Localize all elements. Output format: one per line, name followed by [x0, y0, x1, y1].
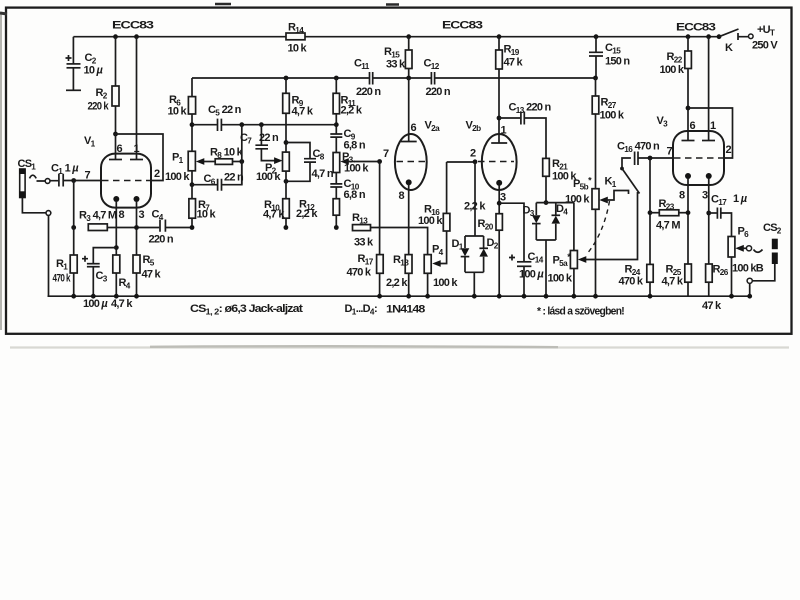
jack CS2 hook [754, 250, 763, 253]
wiper arrow P4 fed by R16 [439, 231, 447, 264]
resistor R14 [286, 33, 305, 40]
capacitor C16 [622, 158, 631, 169]
ground bar under C2 [66, 89, 81, 91]
svg-text:2: 2 [726, 144, 732, 156]
svg-text:1N4148: 1N4148 [386, 304, 425, 316]
anode bar V2b [491, 142, 507, 144]
svg-text:10 µ: 10 µ [84, 65, 104, 77]
svg-text:220 n: 220 n [356, 86, 381, 98]
svg-text:150 n: 150 n [605, 56, 630, 68]
wire V2b grid down to D1/D2 [474, 162, 476, 236]
wire elbow anode to pin2 [688, 108, 733, 158]
cathode dot pin8 [113, 196, 119, 202]
svg-text:C16 470 n: C16 470 n [617, 141, 660, 155]
resistor R18 (V2a cathode) [408, 184, 410, 255]
resistor R20 [496, 214, 502, 231]
wire pin3 cathode down [136, 201, 138, 255]
wiper arrow P6 [735, 245, 744, 252]
wire sleeve to ground rail [22, 198, 48, 297]
grid dashed V3 [674, 157, 723, 159]
wire V3 cathode pin3 [708, 178, 710, 264]
svg-text:2: 2 [154, 168, 160, 180]
resistor R27 [595, 78, 597, 96]
svg-text:2,2 k: 2,2 k [386, 277, 408, 289]
resistor R5 [133, 255, 140, 273]
wiper arrow P2 [274, 157, 283, 164]
node V2b cathode [498, 185, 500, 214]
node V2b grid [473, 159, 478, 164]
capacitor C11 [370, 72, 373, 85]
diode D4 [552, 216, 561, 224]
diode D2 [479, 249, 488, 257]
cathode dots V3 [685, 173, 691, 179]
capacitor C6 [191, 171, 193, 185]
svg-text:220 k: 220 k [88, 101, 110, 113]
svg-text:2: 2 [470, 148, 476, 160]
resistor R11 [334, 76, 339, 81]
capacitor C1 [59, 174, 63, 187]
pot P5a [570, 251, 577, 269]
svg-text:100 k: 100 k [165, 171, 190, 183]
svg-text:ECC83: ECC83 [676, 22, 716, 34]
pot P2 [283, 152, 290, 171]
capacitor C3 [87, 263, 100, 265]
tube V2a envelope [395, 134, 427, 190]
capacitor C17 [709, 212, 717, 214]
wire R13 to P4 [371, 228, 428, 255]
svg-text:100 µ: 100 µ [519, 269, 544, 281]
pot P6 [728, 237, 735, 258]
signal line y78 [192, 77, 596, 79]
svg-text:33 k: 33 k [386, 59, 406, 71]
wire pin1 from rail [134, 34, 139, 39]
svg-text:4,7 k: 4,7 k [292, 106, 314, 118]
svg-text:6: 6 [117, 143, 123, 155]
anode bar V2a [401, 141, 417, 143]
capacitor C14 [499, 203, 524, 261]
node C3 tap [114, 245, 119, 250]
resistor R25 [685, 264, 692, 282]
svg-text:470 k: 470 k [619, 276, 644, 288]
svg-text:8: 8 [399, 190, 405, 202]
cathode dot pin3 [134, 196, 140, 202]
svg-text:7: 7 [383, 148, 389, 160]
tube V3 envelope [673, 131, 724, 185]
resistor R15 [406, 34, 411, 39]
svg-text:250 V: 250 V [752, 40, 778, 52]
resistor R3 [88, 224, 107, 231]
scan artifact: bottom dark bar [10, 346, 789, 348]
capacitor C5 [218, 119, 222, 131]
anode bars V3 [682, 140, 695, 142]
resistor R13 [353, 225, 371, 231]
wire pin6 [408, 78, 410, 142]
anode bar pin1 [130, 159, 143, 161]
svg-text:6: 6 [411, 122, 417, 134]
node V2a anode [406, 76, 411, 81]
svg-text:22 n: 22 n [224, 172, 244, 184]
svg-text:100 µ: 100 µ [83, 298, 108, 310]
svg-text:1: 1 [710, 120, 716, 132]
svg-text:2,2 k: 2,2 k [341, 105, 363, 117]
node grid V1 [71, 178, 76, 183]
svg-text:3: 3 [139, 209, 145, 221]
wire V3 cathode pin8 [687, 178, 689, 264]
node V3 grid [648, 156, 653, 161]
wire grid down to R3 line [73, 181, 75, 228]
diode D1 [461, 248, 470, 256]
resistor R22 [686, 34, 691, 39]
capacitor C7 [260, 125, 262, 145]
svg-text:1: 1 [134, 143, 140, 155]
svg-text:470 k: 470 k [347, 267, 372, 279]
wiper arrow P5a [578, 256, 587, 263]
diode pair D1 D2 [465, 236, 484, 272]
node C12 output [593, 76, 598, 81]
node P2 top [284, 140, 289, 145]
cathode dot V2a [406, 179, 412, 185]
node anode V1a [113, 132, 118, 137]
jack CS2 sleeve wire [752, 264, 775, 281]
capacitor C9 [330, 134, 342, 137]
resistor R10 [283, 199, 290, 219]
capacitor C4 [160, 220, 165, 232]
resistor R19 [497, 34, 502, 39]
svg-text:ECC83: ECC83 [442, 20, 483, 32]
svg-text:4,7 n: 4,7 n [312, 168, 334, 180]
pot P3 [333, 153, 340, 173]
wiper arrow P1 [202, 161, 215, 163]
scan artifact: top edge dashes [215, 3, 399, 6]
capacitor C10 [335, 173, 337, 184]
wire R3 to C4 [107, 227, 159, 229]
svg-text:7: 7 [667, 146, 673, 158]
wire pin8 cathode down [115, 201, 117, 255]
svg-text:100 k: 100 k [565, 194, 590, 206]
svg-text:22 n: 22 n [259, 132, 279, 144]
svg-text:6,8 n: 6,8 n [344, 189, 366, 201]
grid dashed V2a [397, 161, 426, 163]
node below R6 [190, 122, 195, 127]
jack CS1 [20, 169, 25, 198]
svg-text:2,2 k: 2,2 k [464, 201, 486, 213]
diode D3 [532, 215, 541, 223]
svg-text:C1 1 µ: C1 1 µ [51, 163, 79, 177]
wiper arrow P3 (from V2a grid wire) [354, 161, 380, 163]
resistor R21 [543, 158, 550, 176]
resistor R16 [443, 213, 450, 231]
capacitor C15 [594, 34, 599, 39]
svg-text:4,7 k: 4,7 k [263, 209, 285, 221]
cathode dot V2b [496, 180, 502, 186]
svg-text:3: 3 [702, 190, 708, 202]
node D3/D4 top [544, 200, 549, 205]
svg-text:100 k: 100 k [548, 273, 573, 285]
svg-text:4,7 M: 4,7 M [656, 220, 680, 232]
diode pair D3 D4 [536, 203, 574, 240]
scan artifact: left gutter streak [0, 12, 2, 330]
ground rail dots (middle) [377, 294, 382, 299]
jack CS2 [772, 239, 778, 250]
wire pin6 [115, 134, 117, 160]
svg-text:C5 22 n: C5 22 n [208, 104, 242, 118]
svg-text:100 k: 100 k [418, 215, 443, 227]
svg-text:10 k: 10 k [168, 106, 188, 118]
svg-text:4,7 k: 4,7 k [662, 276, 684, 288]
svg-text:470 k: 470 k [53, 273, 72, 285]
svg-text:4,7 k: 4,7 k [111, 298, 133, 310]
svg-text:10 k: 10 k [288, 43, 308, 55]
svg-text:2,2 k: 2,2 k [296, 208, 318, 220]
svg-text:K: K [725, 42, 733, 54]
treble line y124.7 [192, 124, 336, 126]
node V3 anode [686, 106, 691, 111]
switch K [717, 34, 722, 39]
wire C3 branch [93, 248, 116, 264]
switch K1 lever [620, 167, 624, 171]
B+ rail wire [73, 36, 719, 38]
svg-text:R8 10 k: R8 10 k [210, 147, 244, 161]
anode bar pin6 [109, 159, 122, 161]
grid dashed V2b [478, 161, 514, 163]
svg-text:47 k: 47 k [504, 57, 524, 69]
svg-text:100 k: 100 k [660, 64, 685, 76]
svg-text:6: 6 [690, 120, 696, 132]
resistor R2 [113, 34, 118, 39]
svg-text:220 n: 220 n [149, 234, 174, 246]
node C13 tap [497, 116, 502, 121]
capacitor C12 [431, 72, 434, 85]
resistor R26 [706, 264, 713, 282]
wire pin1 from rail [706, 34, 711, 39]
node C7 tap [259, 122, 264, 127]
tube V2b envelope [482, 134, 517, 190]
riser x241.8 [241, 125, 243, 185]
wire circle to C1 [37, 180, 59, 182]
tube V1 envelope [101, 154, 151, 208]
dashed gang link P5a/P5b [589, 201, 610, 252]
node R8/C6 riser [239, 122, 244, 127]
svg-text:7: 7 [85, 170, 91, 182]
resistor R17 [379, 162, 381, 255]
svg-text:100 k: 100 k [600, 110, 625, 122]
capacitor C8 loop [286, 143, 310, 182]
resistor R7 [191, 185, 193, 199]
svg-text:220 n: 220 n [426, 86, 451, 98]
svg-text:47 k: 47 k [142, 269, 162, 281]
resistor R23 [650, 212, 659, 214]
svg-text:33 k: 33 k [354, 237, 374, 249]
resistor R4 [113, 255, 120, 273]
svg-text:1: 1 [501, 125, 507, 137]
resistor R6 [191, 78, 193, 97]
node V2a grid [377, 159, 382, 164]
ground rail [48, 295, 750, 297]
grid dashed line V1 [102, 180, 150, 182]
pot P4 [424, 255, 431, 274]
wire elbow anode to grid pin2 [116, 134, 164, 181]
wiper arrow P5b with contact bracket [599, 197, 608, 204]
jack CS1 sleeve contact [46, 211, 51, 216]
wire grid down to R23/R24 [649, 158, 651, 264]
svg-text:47 k: 47 k [702, 300, 722, 312]
pot P1 [188, 151, 195, 171]
resistor R1 [73, 228, 75, 256]
pot P5b [592, 189, 599, 210]
wire R16 top to V2b grid [447, 161, 475, 163]
svg-text:8: 8 [679, 190, 685, 202]
svg-text:C13 220 n: C13 220 n [509, 102, 552, 116]
node P2 bottom [284, 179, 289, 184]
border frame [6, 8, 792, 334]
svg-text:ECC83: ECC83 [112, 20, 154, 32]
svg-text:10 k: 10 k [197, 209, 217, 221]
svg-text:8: 8 [119, 209, 125, 221]
svg-text:R3 4,7 M: R3 4,7 M [79, 210, 117, 224]
svg-text:100 k: 100 k [433, 277, 458, 289]
wire K1 second contact to P5a wiper line [585, 192, 638, 260]
capacitor C2 [72, 37, 74, 90]
resistor R8 [215, 159, 232, 165]
svg-text:100 k: 100 k [256, 171, 281, 183]
resistor R12 [333, 199, 339, 216]
svg-text:100 kB: 100 kB [732, 263, 764, 275]
svg-text:6,8 n: 6,8 n [344, 140, 366, 152]
capacitor C13 [499, 117, 520, 119]
svg-text:* : lásd a szövegben!: * : lásd a szövegben! [537, 306, 624, 318]
svg-text:1 µ: 1 µ [733, 193, 748, 205]
resistor R9 [284, 76, 289, 81]
resistor R24 [647, 264, 653, 282]
